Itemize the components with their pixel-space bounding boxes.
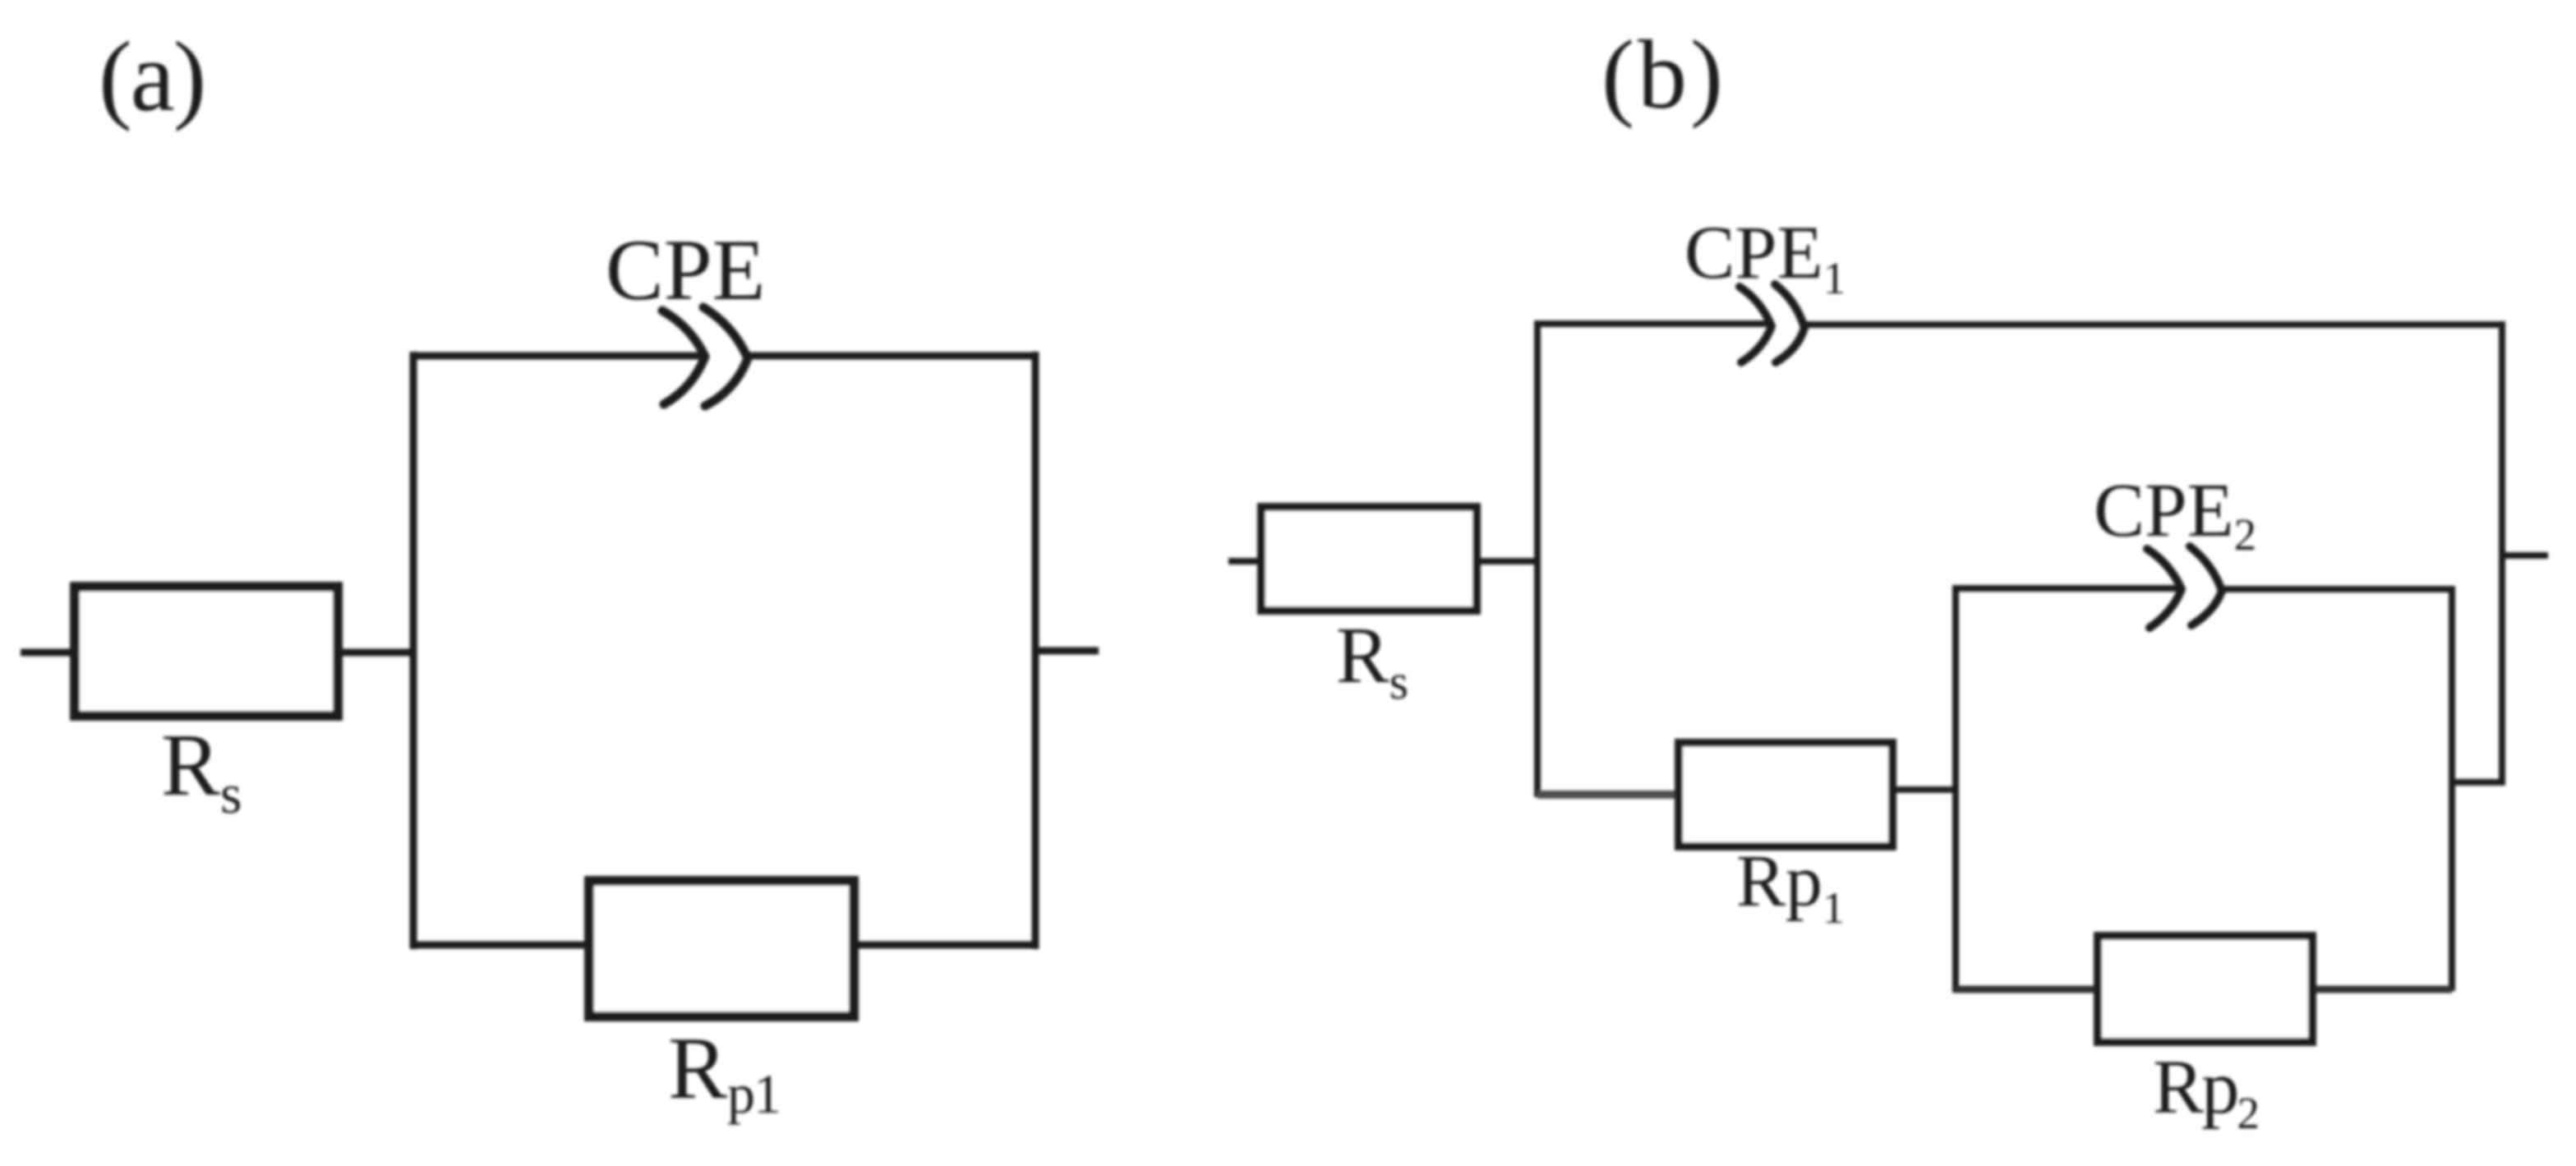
svg-text:CPE2: CPE2	[2094, 468, 2256, 560]
wire: input terminal stub (b)	[1228, 558, 1261, 565]
wire: bottom branch of inner loop, Rp2 row (b)	[1956, 986, 2452, 993]
wire: left vertical of parallel loop (a)	[410, 352, 417, 949]
wire: Rs to parallel node (b)	[1477, 558, 1537, 565]
wire: left vertical of inner loop (b)	[1952, 585, 1959, 993]
wire: top branch left segment of inner loop (b)	[1956, 585, 2179, 592]
wire: bottom branch of loop (a)	[413, 942, 1035, 949]
svg-text:Rp1: Rp1	[668, 1020, 780, 1125]
resistor Rp2 (b)	[2098, 936, 2312, 1042]
capacitor CPE (a) chevron 1	[662, 311, 705, 404]
wire: left vertical of outer loop (b)	[1534, 320, 1541, 797]
svg-text:(a): (a)	[99, 21, 205, 132]
wire: right vertical of outer loop (b)	[2499, 321, 2505, 786]
capacitor CPE1 (b) chevron 2	[1775, 284, 1804, 362]
svg-text:Rs: Rs	[1336, 611, 1408, 709]
wire: top branch left segment of outer loop (b)	[1537, 320, 1768, 327]
svg-text:Rp2: Rp2	[2153, 1045, 2258, 1138]
svg-text:CPE1: CPE1	[1684, 210, 1846, 303]
svg-text:(b): (b)	[1601, 20, 1726, 129]
wire: bottom branch of outer loop, Rp1 row left segment (b)	[1537, 790, 1684, 799]
capacitor CPE (a) chevron 2	[703, 307, 748, 406]
wire: right vertical of parallel loop (a)	[1032, 352, 1039, 949]
wire: right vertical of inner loop (b)	[2449, 586, 2455, 991]
resistor Rs (b)	[1261, 507, 1477, 611]
resistor Rs (a)	[75, 587, 338, 716]
capacitor CPE2 (b) chevron 1	[2147, 549, 2182, 628]
wire: output terminal stub (a)	[1035, 648, 1099, 655]
svg-text:CPE: CPE	[606, 222, 765, 318]
capacitor CPE2 (b) chevron 2	[2190, 546, 2222, 625]
capacitor CPE1 (b) chevron 1	[1740, 287, 1772, 362]
wire: Rs to parallel node (a)	[338, 649, 413, 657]
resistor Rp1 (a)	[589, 881, 854, 1016]
wire: inner loop to outer right vertical connector (b)	[2452, 779, 2502, 786]
wire: top branch right segment of outer loop (b)	[1801, 321, 2502, 328]
wire: output terminal stub (b)	[2502, 552, 2548, 559]
wire: top branch right segment (a)	[746, 353, 1035, 360]
wire: top branch right segment of inner loop (b)	[2219, 586, 2452, 592]
wire: bottom branch of outer loop, Rp1 row right segment (b)	[1887, 786, 1956, 793]
svg-text:Rp1: Rp1	[1736, 841, 1845, 933]
resistor Rp1 (b)	[1679, 743, 1892, 846]
svg-text:Rs: Rs	[161, 717, 242, 825]
wire: top branch left segment (a)	[413, 353, 705, 360]
wire: input terminal stub (a)	[21, 649, 75, 657]
